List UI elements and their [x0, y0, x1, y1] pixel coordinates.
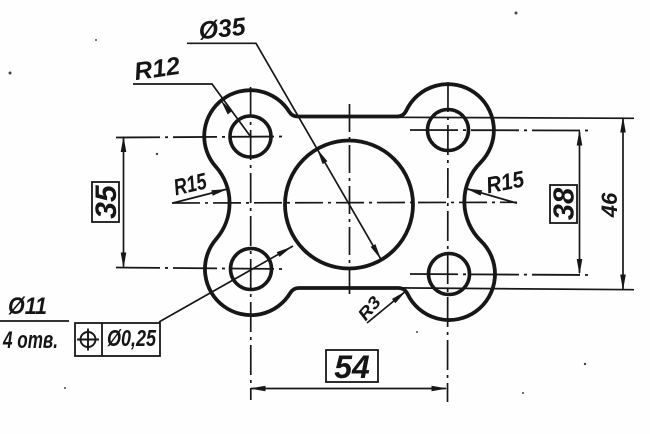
hole top-left D11 — [230, 116, 271, 157]
dimension line 35 — [123, 138, 125, 267]
dimension line 46 — [622, 118, 624, 289]
svg-text:Ø11: Ø11 — [8, 293, 47, 320]
arrowhead dim46 bottom — [620, 275, 626, 291]
center line vertical plate axis — [349, 104, 351, 294]
svg-text:46: 46 — [597, 192, 622, 218]
arrowhead dim38 top — [577, 130, 583, 146]
arrowhead dim54 right — [432, 386, 448, 392]
arrowhead dim46 top — [620, 117, 626, 133]
center line horizontal top-left hole — [116, 137, 287, 138]
leader R3 — [367, 291, 406, 323]
arrowhead D11 — [277, 247, 292, 257]
center line horizontal bottom-left hole — [116, 268, 285, 270]
hole bottom-left D11 — [231, 249, 272, 290]
speck — [522, 392, 524, 394]
leader D11 four holes — [159, 246, 293, 322]
position tolerance symbol — [81, 332, 96, 347]
svg-text:54: 54 — [334, 349, 370, 385]
hole top-right D11 — [428, 110, 469, 151]
plate outline — [204, 84, 495, 320]
speck — [515, 12, 518, 15]
svg-text:Ø0,25: Ø0,25 — [107, 325, 157, 351]
arrowhead R15 left — [211, 189, 227, 196]
arrowhead R12 — [221, 100, 233, 115]
leader R15 right — [466, 189, 517, 204]
leader D35 — [187, 43, 381, 259]
center line vertical through right holes — [447, 82, 450, 402]
arrowhead dim35 top — [121, 136, 127, 152]
svg-text:R12: R12 — [132, 52, 181, 86]
dimension line 54 — [251, 388, 446, 390]
extension line bottom edge to 46 dim — [398, 288, 634, 290]
leader R12 — [133, 84, 251, 137]
center line vertical through left holes — [250, 87, 252, 400]
speck — [584, 363, 586, 365]
center line horizontal plate axis — [172, 201, 517, 204]
leader R15 left — [173, 189, 228, 203]
speck — [156, 153, 158, 155]
speck — [64, 387, 66, 389]
svg-text:35: 35 — [90, 184, 123, 219]
hole bottom-right D11 — [429, 254, 470, 295]
speck — [416, 331, 418, 333]
speck — [95, 39, 97, 41]
frame box 54 — [326, 350, 378, 382]
extension line top edge to 46 dim — [396, 117, 634, 118]
arrowhead dim54 left — [250, 386, 266, 392]
center line horizontal top-right hole — [410, 129, 588, 132]
svg-text:4 отв.: 4 отв. — [2, 327, 58, 354]
central hole circle D35 — [285, 141, 413, 269]
arrowhead R15 right — [466, 189, 482, 196]
center line horizontal bottom-right hole — [410, 274, 588, 275]
frame box 35 — [92, 182, 119, 222]
svg-text:R3: R3 — [354, 292, 385, 324]
feature control frame — [75, 323, 160, 356]
svg-text:R15: R15 — [484, 165, 527, 198]
svg-text:Ø35: Ø35 — [197, 13, 248, 46]
arrowhead dim38 bottom — [577, 259, 583, 275]
dimension line 38 — [579, 132, 581, 274]
leader underline D11 — [0, 320, 69, 322]
frame box 38 — [550, 185, 577, 223]
arrowhead R3 — [392, 291, 406, 303]
speck — [9, 72, 12, 75]
arrowhead D35 upper — [317, 149, 327, 164]
svg-text:38: 38 — [549, 187, 581, 220]
arrowhead D35 lower — [371, 244, 381, 259]
arrowhead dim35 bottom — [121, 253, 127, 269]
